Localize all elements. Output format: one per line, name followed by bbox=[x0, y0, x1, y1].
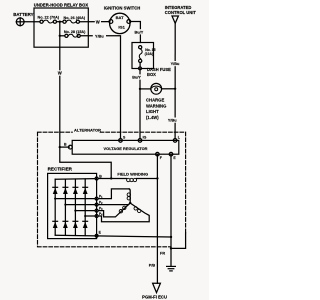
wire label W bbox=[95, 19, 101, 24]
node P4 bbox=[84, 215, 86, 217]
diode string 1 bbox=[53, 179, 58, 235]
wire label W bbox=[57, 70, 63, 75]
diode string 4 bbox=[83, 179, 88, 236]
wire label Y/Bu bbox=[93, 33, 106, 38]
wire P1 bbox=[55, 198, 95, 200]
node junction row1 bbox=[59, 21, 61, 23]
charge warning light label bbox=[146, 98, 166, 120]
svg-text:ALTERNATOR: ALTERNATOR bbox=[74, 127, 101, 132]
wire to regulator B terminal bbox=[60, 146, 70, 148]
svg-text:No. 22 (70A): No. 22 (70A) bbox=[38, 16, 60, 20]
wire W drop (relay box to alternator B) bbox=[59, 47, 61, 147]
svg-text:IG1: IG1 bbox=[118, 24, 125, 29]
terminal L bbox=[173, 139, 177, 143]
svg-text:Bu/Y: Bu/Y bbox=[132, 76, 141, 80]
terminal B (regulator) bbox=[68, 145, 72, 149]
ignition switch SW1 bbox=[109, 13, 131, 33]
svg-text:No. 15: No. 15 bbox=[145, 48, 155, 52]
svg-text:No. 26 (40A): No. 26 (40A) bbox=[64, 16, 86, 20]
under-hood relay box bbox=[34, 8, 88, 47]
wire P2 bbox=[65, 204, 95, 206]
wire IG1 to dash fuse box bbox=[131, 22, 141, 43]
diode string 2 bbox=[63, 179, 68, 235]
node stator center bbox=[129, 202, 131, 204]
terminal S bbox=[119, 139, 123, 143]
svg-text:CHARGE: CHARGE bbox=[146, 98, 164, 103]
battery symbol bbox=[16, 18, 24, 26]
svg-text:BATTERY: BATTERY bbox=[13, 12, 33, 17]
wire Y/Bu to regulator S bbox=[80, 36, 120, 139]
alternator dashed box bbox=[38, 132, 186, 247]
node F field junction bbox=[156, 177, 158, 179]
svg-text:IGNITION SWITCH: IGNITION SWITCH bbox=[104, 6, 141, 11]
fuse No.22 (70A) bbox=[38, 16, 60, 24]
terminal E bbox=[169, 152, 173, 156]
terminal P3 bbox=[95, 209, 98, 212]
rectifier box bbox=[48, 173, 97, 238]
svg-text:Y/Bu: Y/Bu bbox=[168, 119, 177, 123]
field winding coil bbox=[98, 178, 157, 181]
svg-text:PGM-FI ECU: PGM-FI ECU bbox=[142, 294, 167, 299]
alternator label bbox=[73, 127, 101, 133]
svg-text:(10A): (10A) bbox=[145, 52, 154, 56]
wire P4 bbox=[85, 215, 95, 217]
svg-text:(1.4W): (1.4W) bbox=[146, 115, 159, 120]
wire P3 bbox=[75, 210, 95, 212]
integrated control unit connector triangle bbox=[172, 16, 178, 23]
terminal P4 bbox=[95, 215, 98, 218]
node junction row2 bbox=[59, 35, 61, 37]
wire box edge exit corner bbox=[171, 233, 186, 248]
wire F / FR line to ECU bbox=[156, 154, 158, 283]
wire battery to fuse No.22 bbox=[24, 21, 40, 23]
wire W to ignition switch bbox=[80, 21, 110, 23]
rectifier top bus bbox=[55, 178, 95, 181]
fuse No.26 (40A) bbox=[63, 16, 86, 23]
integrated control unit label bbox=[165, 5, 197, 15]
stator neutral wire (P2 to center) bbox=[98, 203, 130, 205]
node P1 bbox=[54, 198, 56, 200]
wire to charge lamp bbox=[140, 88, 151, 90]
wire vertical relay internal bbox=[59, 22, 61, 48]
svg-text:FIELD WINDING: FIELD WINDING bbox=[117, 171, 148, 176]
wire label Bu/Y bbox=[132, 29, 145, 34]
terminal P1 bbox=[95, 197, 98, 200]
svg-text:W: W bbox=[96, 19, 100, 24]
rectifier bottom bus / E wire bbox=[55, 235, 171, 237]
svg-text:P/B: P/B bbox=[149, 263, 156, 267]
svg-text:UNDER-HOOD RELAY BOX: UNDER-HOOD RELAY BOX bbox=[34, 2, 89, 7]
ground G1 bbox=[167, 266, 176, 271]
svg-text:Y/Bu: Y/Bu bbox=[171, 62, 180, 66]
svg-text:No. 28 (15A): No. 28 (15A) bbox=[64, 30, 86, 34]
node P2 bbox=[64, 204, 66, 206]
svg-text:B: B bbox=[99, 174, 102, 178]
svg-text:BAT: BAT bbox=[116, 15, 125, 20]
dash fuse box bbox=[132, 43, 154, 69]
svg-text:VOLTAGE REGULATOR: VOLTAGE REGULATOR bbox=[104, 146, 148, 151]
svg-text:B: B bbox=[64, 142, 67, 146]
stator phase C coil (P4 to center) bbox=[98, 204, 149, 222]
node lamp branch bbox=[139, 88, 141, 90]
fuse No.28 (15A) bbox=[60, 30, 86, 37]
wire IG line (fuse 15 to regulator IG) bbox=[139, 69, 141, 139]
node field junction bbox=[110, 177, 112, 179]
node on L line bbox=[174, 88, 176, 90]
wire label Y/Bu on L line bbox=[168, 61, 181, 66]
wire down and right to field/rectifier B bbox=[60, 147, 111, 178]
connector triangle PGM-FI ECU bbox=[153, 283, 161, 292]
svg-text:FR: FR bbox=[160, 251, 165, 255]
stator phase A coil (P1 to center) bbox=[98, 189, 130, 203]
fuse No.15 (10A) bbox=[139, 46, 156, 70]
charge warning light lamp bbox=[151, 83, 162, 94]
svg-text:IG: IG bbox=[143, 136, 147, 140]
svg-text:W: W bbox=[58, 71, 62, 76]
diode string 3 bbox=[73, 179, 78, 235]
svg-text:CONTROL UNIT: CONTROL UNIT bbox=[165, 10, 197, 15]
wire E line to ground bbox=[170, 154, 172, 266]
wire lamp to L line bbox=[162, 88, 176, 90]
svg-text:WARNING: WARNING bbox=[146, 103, 166, 108]
terminal IG bbox=[138, 139, 142, 143]
dash fuse box label bbox=[147, 67, 171, 77]
svg-text:Y/Bu: Y/Bu bbox=[95, 34, 104, 38]
svg-text:LIGHT: LIGHT bbox=[146, 109, 159, 114]
rectifier B terminal bbox=[95, 177, 98, 180]
wire label Bu/Y bbox=[130, 74, 143, 79]
rectifier E terminal bbox=[95, 234, 98, 237]
node B branch bbox=[59, 146, 61, 148]
node E bus junction bbox=[170, 236, 172, 238]
stator phase B coil (P3 to center) bbox=[98, 204, 129, 217]
node corner junction bbox=[170, 247, 172, 249]
voltage regulator box bbox=[72, 140, 179, 154]
terminal P2 bbox=[95, 203, 98, 206]
svg-text:BOX: BOX bbox=[147, 72, 156, 77]
svg-text:RECTIFIER: RECTIFIER bbox=[48, 167, 73, 172]
terminal F bbox=[156, 152, 160, 156]
node P3 bbox=[74, 210, 76, 212]
wire bbox=[57, 21, 63, 23]
wire L line (ICU to regulator L) bbox=[174, 23, 176, 139]
svg-text:Bu/Y: Bu/Y bbox=[135, 30, 144, 34]
wire label Y/Bu lower on L line bbox=[166, 118, 179, 123]
